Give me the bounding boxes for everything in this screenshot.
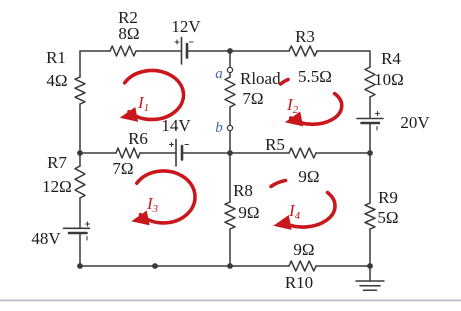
svg-text:R8: R8 (233, 181, 253, 200)
wire R3 to top-right corner (317, 50, 370, 52)
wire center branch: top junction to node a (229, 51, 231, 68)
mesh current loop I3 arc (137, 171, 195, 223)
svg-text:12Ω: 12Ω (42, 177, 72, 196)
node b terminal circle (227, 125, 232, 130)
wire R7 to 48V battery (79, 198, 81, 228)
resistor R7 (75, 166, 85, 198)
svg-text:5Ω: 5Ω (377, 208, 398, 227)
wire R10 to ground junction (316, 265, 370, 267)
wire R5 to right rail (316, 152, 370, 154)
resistor R9 (365, 203, 375, 229)
ground (356, 266, 384, 290)
battery 20V (357, 112, 383, 131)
svg-text:R6: R6 (128, 129, 148, 148)
svg-text:5.5Ω: 5.5Ω (298, 67, 332, 86)
svg-text:R4: R4 (381, 49, 401, 68)
battery 14V (170, 140, 189, 167)
wire R1 to mid-left junction (79, 104, 81, 166)
wire 12V to node junction (187, 50, 289, 52)
svg-text:R1: R1 (46, 48, 66, 67)
wire node b to center junction (229, 131, 231, 154)
junction dot mid left (77, 150, 83, 156)
svg-text:48V: 48V (31, 229, 61, 248)
resistor R6 (116, 148, 140, 158)
svg-text:12V: 12V (171, 17, 201, 36)
junction dot top center (227, 48, 233, 54)
svg-text:10Ω: 10Ω (374, 70, 404, 89)
wire R2 to 12V battery (136, 50, 181, 52)
svg-text:R9: R9 (378, 188, 398, 207)
junction dot mid right (367, 150, 373, 156)
junction dot bottom right (367, 263, 373, 269)
wire top-left horizontal segment (80, 50, 110, 52)
junction dot bottom left corner (77, 263, 83, 269)
svg-text:R3: R3 (295, 27, 315, 46)
wire left rail top (79, 51, 81, 77)
resistor Rload (225, 77, 235, 107)
mesh current loop I1 arrowhead (121, 108, 138, 121)
svg-text:R5: R5 (265, 135, 285, 154)
svg-text:8Ω: 8Ω (118, 24, 139, 43)
svg-text:R7: R7 (47, 153, 67, 172)
mesh current loop I4 lead dash (271, 181, 286, 187)
wire Rload to node b (229, 107, 231, 126)
wire bottom row left (80, 265, 289, 267)
junction dot bottom center (227, 263, 233, 269)
svg-text:4Ω: 4Ω (46, 71, 67, 90)
resistor R8 (225, 202, 235, 229)
wire R6 to 14V battery (140, 152, 176, 154)
mesh current loop I2 arrowhead (286, 112, 303, 125)
mesh current loop I1 arc (125, 70, 184, 119)
bottom separator line (0, 300, 461, 302)
svg-text:b: b (215, 120, 223, 136)
svg-text:Rload: Rload (240, 69, 281, 88)
wire 20V to right mid junction (369, 123, 371, 203)
wire R9 to bottom-right junction (369, 229, 371, 266)
wire right rail top (369, 51, 371, 67)
svg-text:9Ω: 9Ω (298, 167, 319, 186)
mesh current loop I3 arrowhead (133, 211, 150, 224)
wire 48V to bottom-left corner (79, 233, 81, 266)
resistor R5 (289, 148, 316, 158)
wire node a to Rload (229, 73, 231, 78)
wire R8 to bottom junction (229, 229, 231, 266)
battery 48V (64, 222, 90, 240)
svg-text:7Ω: 7Ω (112, 159, 133, 178)
svg-text:a: a (215, 66, 223, 82)
resistor R4 (365, 67, 375, 97)
resistor R2 (110, 46, 136, 56)
junction dot center (227, 150, 233, 156)
resistor R3 (289, 46, 317, 56)
wire 14V to center junction (182, 152, 289, 154)
svg-text:20V: 20V (400, 113, 430, 132)
svg-text:R10: R10 (285, 273, 313, 292)
mesh current loop I2 arc (291, 94, 342, 125)
battery 12V (175, 38, 193, 65)
mesh current loop I4 arc (284, 193, 335, 228)
resistor R1 (75, 77, 85, 104)
wire center lower branch to R8 (229, 153, 231, 202)
mesh current loop I4 arrowhead (275, 216, 292, 229)
svg-text:7Ω: 7Ω (242, 89, 263, 108)
wire middle row: left junction to R6 (80, 152, 116, 154)
junction dot bottom 1 (152, 263, 158, 269)
resistor R10 (289, 261, 316, 271)
node a terminal circle (227, 67, 232, 72)
svg-text:9Ω: 9Ω (238, 203, 259, 222)
wire R4 to 20V battery (369, 97, 371, 118)
svg-text:9Ω: 9Ω (293, 240, 314, 259)
mesh current loop I2 lead dash (281, 80, 289, 85)
